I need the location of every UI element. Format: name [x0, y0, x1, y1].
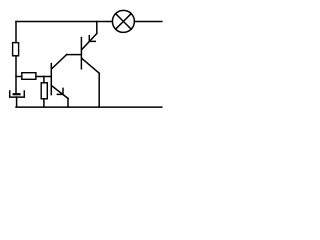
wire Q1 collector to Q2 base — [67, 54, 81, 56]
wire Q1 emitter to bottom rail — [67, 98, 69, 107]
transistor Q1 emitter stroke — [52, 86, 68, 98]
wire resistor R3 top lead — [43, 77, 45, 83]
transistor Q1 emitter arrow — [57, 88, 63, 94]
resistor R1 — [13, 43, 19, 56]
wire bottom rail — [16, 106, 162, 108]
transistor Q1 collector stroke — [52, 55, 67, 69]
transistor Q2 collector stroke — [82, 59, 99, 74]
wire top rail right — [134, 21, 161, 23]
resistor R2 — [22, 73, 36, 80]
polarized capacitor C1 negative cup plate — [10, 91, 25, 97]
lamp DS1 — [112, 10, 134, 32]
wire Q2 emitter to top rail — [96, 22, 98, 34]
wire top rail left — [16, 21, 112, 23]
wire left rail upper — [15, 22, 17, 43]
transistor Q1 base bar — [50, 64, 52, 95]
wire Q2 collector to bottom rail — [98, 73, 100, 107]
resistor R3 — [41, 83, 47, 99]
wire resistor R3 bottom lead — [43, 99, 45, 107]
transistor Q2 emitter arrow — [89, 36, 95, 42]
wire left rail lower — [15, 56, 17, 93]
wire capacitor to bottom rail — [16, 97, 18, 107]
wire base branch right — [36, 76, 51, 78]
transistor Q2 base bar — [80, 38, 82, 69]
wire base branch left — [16, 76, 22, 78]
polarized capacitor C1 positive plate — [13, 93, 21, 95]
transistor Q2 emitter stroke — [82, 34, 97, 50]
